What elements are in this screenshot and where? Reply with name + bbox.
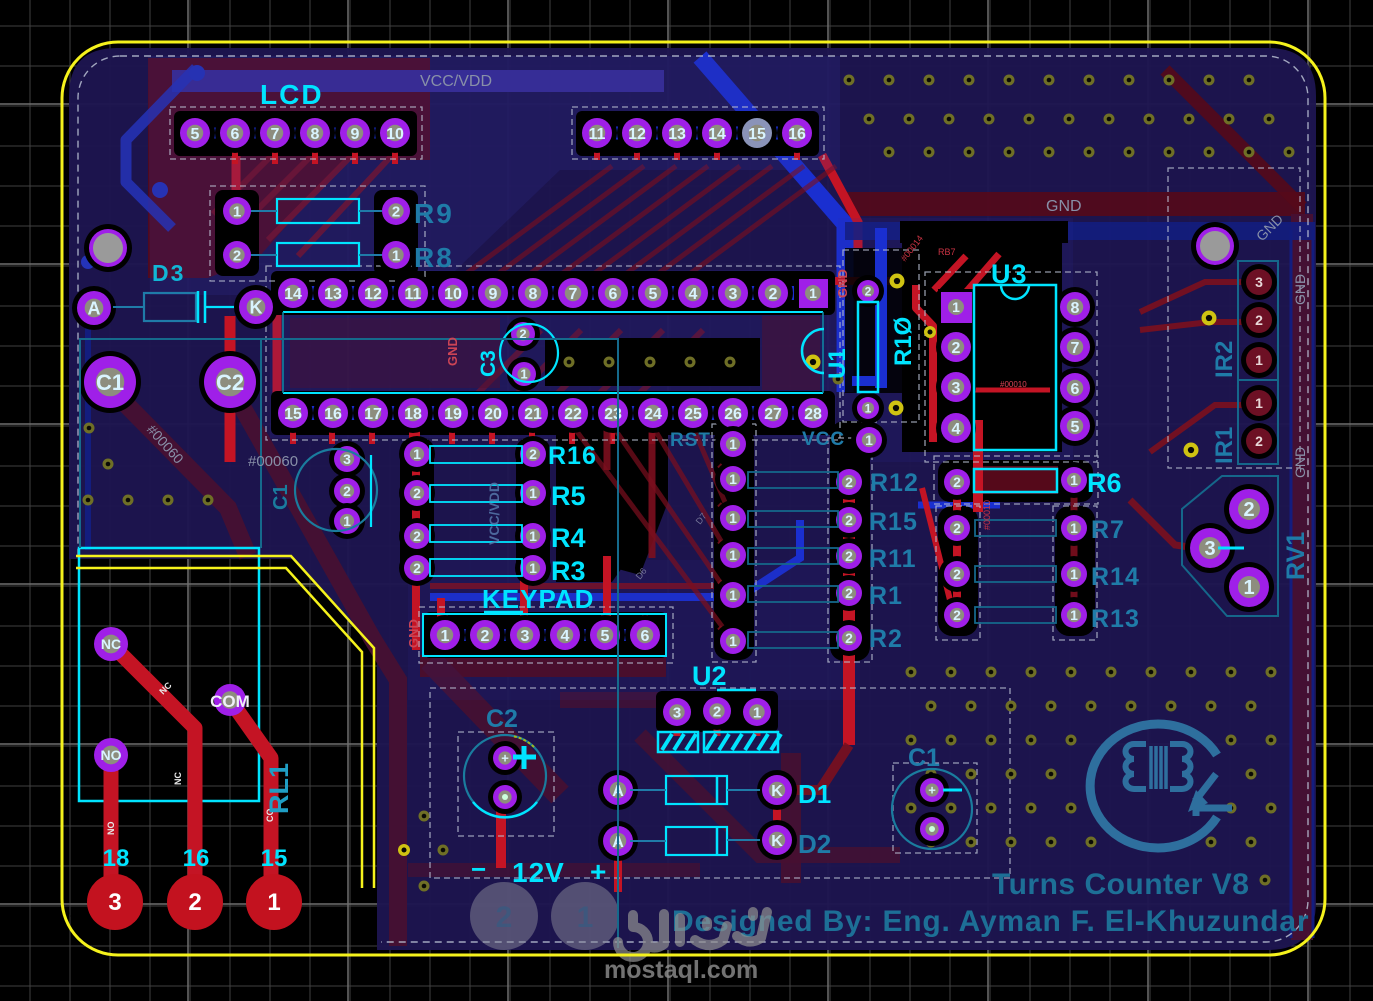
svg-text:7: 7 <box>1071 340 1080 357</box>
wire mid horizontal red+blue <box>430 583 737 589</box>
svg-text:IR2: IR2 <box>1211 341 1238 378</box>
svg-text:2: 2 <box>413 528 421 544</box>
svg-text:U3: U3 <box>991 259 1028 289</box>
clearance socket middle <box>545 338 760 386</box>
svg-text:2: 2 <box>952 340 961 357</box>
svg-text:GND: GND <box>1046 198 1082 215</box>
capacitor C2 pad <box>199 351 261 413</box>
svg-text:16: 16 <box>183 845 210 872</box>
svg-text:3: 3 <box>729 286 738 303</box>
svg-text:15: 15 <box>284 406 302 423</box>
svg-text:R2: R2 <box>869 625 903 653</box>
relay terminal 2 <box>167 874 223 930</box>
svg-text:27: 27 <box>764 406 782 423</box>
wire A2 red trace down <box>614 848 622 892</box>
wire socket row1 red stubs <box>290 274 296 284</box>
svg-text:12V: 12V <box>512 857 565 888</box>
relay trace COM <box>230 700 271 898</box>
svg-text:2: 2 <box>481 628 490 645</box>
svg-text:2: 2 <box>953 474 961 490</box>
potentiometer RV1 pads <box>1224 484 1274 534</box>
resistor network left pads <box>399 436 435 472</box>
blue plane tint socket <box>270 270 836 438</box>
svg-text:RV1: RV1 <box>1282 532 1310 580</box>
diode pads K <box>757 770 797 810</box>
wire U3 left red path <box>916 285 933 442</box>
IC socket row1 pins 14-1 <box>273 273 313 313</box>
svg-text:6: 6 <box>641 628 650 645</box>
wire diagonal bundle lcd to socket <box>452 166 612 284</box>
svg-text:3: 3 <box>673 704 681 721</box>
U3 body <box>1001 285 1029 299</box>
dim blue band above U3 <box>845 222 1315 240</box>
IC socket row2 pins 15-28 <box>273 393 313 433</box>
svg-text:R11: R11 <box>869 545 916 573</box>
svg-text:1: 1 <box>520 367 527 382</box>
U3 pads right <box>1055 287 1095 327</box>
svg-text:1: 1 <box>392 247 400 264</box>
wire A-K red bends <box>773 798 781 833</box>
svg-text:2: 2 <box>713 703 721 720</box>
svg-text:GND: GND <box>1292 274 1308 305</box>
svg-text:RL1: RL1 <box>264 763 294 814</box>
svg-text:GND: GND <box>406 619 421 648</box>
svg-text:22: 22 <box>564 406 582 423</box>
C2 plus mark <box>513 755 536 760</box>
svg-text:A: A <box>88 298 101 318</box>
clearance socket row2 <box>271 391 835 435</box>
dashed courtyard lcd left <box>170 107 422 159</box>
dashed courtyard lcd right <box>572 107 824 159</box>
wire U3 red feeds <box>912 239 920 287</box>
blue blobs top-left <box>189 65 205 81</box>
clearance R4 diamond <box>585 470 668 575</box>
blue plane tint top-left <box>148 56 840 295</box>
svg-text:1: 1 <box>267 889 280 916</box>
relay RL1 outline <box>79 548 259 801</box>
keypad silk outline <box>423 614 666 656</box>
svg-text:U2: U2 <box>692 661 727 691</box>
wire red stripe along blue bus <box>822 155 858 248</box>
svg-text:NO: NO <box>106 822 116 836</box>
relay pad COM <box>214 684 246 716</box>
wire bottom-center maroon diagonals <box>430 660 560 795</box>
svg-text:1: 1 <box>413 446 421 462</box>
board cutout edge <box>76 556 374 888</box>
svg-text:2: 2 <box>233 247 241 264</box>
svg-text:13: 13 <box>324 286 342 303</box>
svg-text:6: 6 <box>231 126 240 143</box>
dashed courtyard socket <box>266 266 840 440</box>
dashed R column outlines <box>712 424 756 662</box>
svg-text:1: 1 <box>729 633 737 649</box>
svg-text:R6: R6 <box>1087 468 1122 498</box>
svg-text:20: 20 <box>484 406 502 423</box>
pad spare 1 <box>551 882 619 950</box>
wire C2pad maroon diagonal <box>236 396 398 946</box>
svg-text:D3: D3 <box>152 260 185 286</box>
svg-text:2: 2 <box>413 485 421 501</box>
svg-text:12: 12 <box>364 286 382 303</box>
diode pads A <box>598 770 638 810</box>
wire socket row2 blue bus <box>276 406 830 420</box>
via grid bottom-right <box>906 667 917 678</box>
svg-text:3: 3 <box>1204 538 1215 560</box>
svg-text:14: 14 <box>708 126 726 143</box>
clearance lcd header right <box>576 111 819 156</box>
svg-text:D1: D1 <box>798 779 831 809</box>
dashed courtyard R10 <box>843 250 919 422</box>
clearance keypad <box>424 612 667 658</box>
svg-text:R16: R16 <box>548 442 597 470</box>
LCD header pins 11-16 <box>577 113 617 153</box>
svg-text:R1Ø: R1Ø <box>890 317 917 366</box>
dashed courtyard U3 <box>925 272 1097 462</box>
watermark mostaql arabic <box>618 912 767 957</box>
svg-text:−: − <box>471 854 486 884</box>
svg-text:GND: GND <box>835 269 850 298</box>
svg-text:C1: C1 <box>908 744 940 772</box>
capacitor C3 pads <box>506 317 540 351</box>
resistor R3 body <box>430 559 522 576</box>
connector IR1 outline <box>1238 380 1278 464</box>
via yellow cluster U1 <box>806 355 821 370</box>
diode D2 body <box>666 827 727 855</box>
svg-text:GND: GND <box>445 337 460 366</box>
svg-text:1: 1 <box>441 628 450 645</box>
wire keypad maroon band <box>420 655 666 677</box>
svg-text:2: 2 <box>845 585 853 601</box>
capacitor C1 outline <box>892 769 972 849</box>
svg-text:1: 1 <box>1070 520 1078 536</box>
svg-text:3: 3 <box>108 889 121 916</box>
svg-text:R8: R8 <box>414 242 454 273</box>
svg-text:25: 25 <box>684 406 702 423</box>
wire socket fan-out traces <box>461 330 541 410</box>
relay pad NC <box>94 627 128 661</box>
svg-text:2: 2 <box>845 548 853 564</box>
svg-text:K: K <box>771 833 783 850</box>
dashed courtyard IR <box>1168 168 1300 468</box>
svg-text:1: 1 <box>729 510 737 526</box>
wire U2 red stubs <box>674 720 681 736</box>
resistor R9 body <box>277 199 359 223</box>
clearance mid R column <box>830 421 870 661</box>
dashed courtyard keypad <box>419 607 673 663</box>
U2 hatched pad small <box>658 732 698 752</box>
svg-text:8: 8 <box>1071 300 1080 317</box>
resistor R9 pads <box>218 192 256 230</box>
clearance U3 region <box>902 236 1062 452</box>
dashed courtyard R9R8 <box>210 186 425 281</box>
svg-text:mostaql.com: mostaql.com <box>604 956 758 984</box>
svg-text:+: + <box>501 751 509 766</box>
relay terminal 3 <box>87 874 143 930</box>
wire socket row2 red stubs <box>290 425 296 444</box>
socket interior pours <box>290 318 500 388</box>
svg-text:NO: NO <box>101 747 122 763</box>
clearance R9 R8 pads <box>215 190 259 276</box>
wire C1 diagonal pour <box>112 390 248 556</box>
svg-text:1: 1 <box>729 436 737 452</box>
resistor R4 body <box>430 525 522 542</box>
transistor Q1 pads <box>329 441 365 477</box>
svg-text:VCC: VCC <box>802 429 845 450</box>
top-left copper pour <box>148 58 430 278</box>
svg-text:15: 15 <box>261 845 288 872</box>
svg-text:1: 1 <box>577 901 594 934</box>
svg-text:2: 2 <box>413 560 421 576</box>
clearance U2 pads <box>656 691 778 732</box>
svg-text:C1: C1 <box>270 484 292 510</box>
svg-text:2: 2 <box>953 520 961 536</box>
svg-text:1: 1 <box>729 547 737 563</box>
diode D3 pads <box>72 286 116 330</box>
svg-text:1: 1 <box>865 432 873 448</box>
svg-text:C1: C1 <box>96 370 124 395</box>
svg-text:10: 10 <box>386 126 404 143</box>
right edge pour band <box>1291 214 1313 940</box>
resistor R10 body <box>858 302 878 392</box>
LCD header pins 5-10 <box>175 113 215 153</box>
wire C2 red trace down <box>496 800 506 868</box>
svg-text:KEYPAD: KEYPAD <box>482 584 594 614</box>
svg-text:1: 1 <box>1243 577 1254 599</box>
wire lcd diagonal traces <box>213 152 275 214</box>
svg-text:RST: RST <box>670 430 711 451</box>
clearance lcd header left <box>174 111 417 156</box>
dashed courtyard C2 <box>458 732 554 836</box>
svg-text:16: 16 <box>324 406 342 423</box>
svg-text:R3: R3 <box>551 556 586 586</box>
big teal routing box <box>80 339 618 948</box>
U2 pads <box>658 693 696 731</box>
wire K-C2 red trace <box>225 316 236 462</box>
svg-text:2: 2 <box>343 483 351 499</box>
svg-text:R9: R9 <box>414 198 454 229</box>
connector IR2 outline <box>1238 261 1278 380</box>
svg-text:1: 1 <box>809 285 817 301</box>
relay trace NC <box>111 644 195 898</box>
svg-text:RB7: RB7 <box>938 247 956 257</box>
svg-text:14: 14 <box>284 286 302 303</box>
svg-text:1: 1 <box>529 528 537 544</box>
resistor R8 pads <box>218 236 256 274</box>
svg-text:VCC/VDD: VCC/VDD <box>486 482 502 545</box>
svg-text:1: 1 <box>1070 472 1078 488</box>
wire row2 fanout diagonals <box>572 425 733 641</box>
svg-text:2: 2 <box>845 512 853 528</box>
clearance R16 left column <box>400 438 434 584</box>
diode D3 body <box>144 293 196 321</box>
svg-text:NC: NC <box>173 772 183 785</box>
clearance right R columns <box>938 506 978 636</box>
svg-text:5: 5 <box>1071 419 1080 436</box>
diode D1 body <box>666 776 727 804</box>
svg-text:R1: R1 <box>869 582 903 610</box>
svg-text:2: 2 <box>845 630 853 646</box>
svg-text:R13: R13 <box>1091 605 1140 633</box>
U1 outline arc <box>802 329 824 373</box>
connector IR2 pads <box>1241 264 1277 300</box>
wire blue vertical near U1 <box>875 228 887 388</box>
svg-text:11: 11 <box>589 126 606 143</box>
wire R-array red verticals <box>953 468 961 625</box>
wire lcd-right blue bus <box>580 127 815 140</box>
wire keypad red traces <box>412 420 420 650</box>
svg-text:1: 1 <box>952 299 960 315</box>
svg-text:2: 2 <box>953 566 961 582</box>
svg-text:2: 2 <box>188 889 201 916</box>
wire socket row1 blue bus <box>276 286 830 300</box>
C1 plus mark <box>943 789 962 792</box>
svg-text:2: 2 <box>1255 433 1263 449</box>
svg-text:COM: COM <box>210 692 250 711</box>
svg-text:3: 3 <box>952 380 961 397</box>
svg-text:R4: R4 <box>551 523 586 553</box>
svg-text:LCD: LCD <box>260 79 324 110</box>
svg-text:2: 2 <box>865 284 872 298</box>
resistor R8 body <box>277 243 359 266</box>
potentiometer RV1 outline <box>1182 476 1278 616</box>
svg-text:7: 7 <box>271 126 280 143</box>
svg-text:D2: D2 <box>798 829 831 859</box>
svg-text:4: 4 <box>952 421 961 438</box>
top GND band <box>845 192 1305 216</box>
top-right corner diagonal pour <box>1165 70 1302 207</box>
svg-text:+: + <box>590 856 606 887</box>
VCC/VDD bus band <box>172 70 664 92</box>
svg-text:17: 17 <box>364 406 382 423</box>
svg-text:1: 1 <box>729 471 737 487</box>
svg-text:1: 1 <box>1255 352 1263 368</box>
svg-text:23: 23 <box>604 406 622 423</box>
capacitor C1 pad <box>79 351 141 413</box>
svg-text:1: 1 <box>343 513 351 529</box>
svg-text:R5: R5 <box>551 481 586 511</box>
wire blue jog below R12 <box>918 502 1000 509</box>
svg-text:2: 2 <box>529 446 537 462</box>
capacitor C2 outline <box>464 735 546 817</box>
blue plane tint U3 zone <box>838 218 1073 462</box>
clearance left R column <box>714 426 754 660</box>
svg-text:28: 28 <box>804 406 822 423</box>
wire lcd-left blue bus <box>180 128 412 139</box>
svg-text:18: 18 <box>404 406 422 423</box>
wire RV1 red diagonal <box>1130 500 1196 548</box>
relay pad NO <box>94 738 128 772</box>
svg-text:6: 6 <box>609 286 618 303</box>
svg-text:#00010: #00010 <box>1000 380 1027 389</box>
svg-text:3: 3 <box>521 628 530 645</box>
wire left blue trace <box>85 318 91 550</box>
blue plane tint center bottom <box>408 560 860 700</box>
capacitor C2 polarized pads <box>488 741 522 775</box>
svg-text:21: 21 <box>524 406 542 423</box>
R12-R2 left column pads <box>715 461 751 497</box>
svg-text:10: 10 <box>444 286 462 303</box>
wire lcd red stubs <box>232 145 238 164</box>
wire IR red diagonals <box>1140 282 1243 312</box>
resistor R16 body <box>430 446 522 463</box>
via yellow right side <box>1202 311 1217 326</box>
svg-text:2: 2 <box>496 901 513 934</box>
pad spare 2 <box>470 882 538 950</box>
right edge blue lines <box>1290 230 1293 938</box>
mounting hole left <box>84 224 132 272</box>
wire red trace pad6 to R9 <box>232 140 241 208</box>
svg-text:VCC/VDD: VCC/VDD <box>420 73 492 90</box>
right resistor bodies dim <box>975 520 1056 536</box>
svg-text:2: 2 <box>845 474 853 490</box>
keypad header pads <box>425 615 465 655</box>
svg-text:NC: NC <box>101 636 121 652</box>
svg-text:11: 11 <box>405 286 422 303</box>
svg-text:7: 7 <box>569 286 578 303</box>
svg-text:R15: R15 <box>869 508 918 536</box>
svg-text:4: 4 <box>689 286 698 303</box>
dashed courtyard C1cap <box>893 763 977 853</box>
svg-text:18: 18 <box>103 845 130 872</box>
wire blue wrap top-left <box>126 68 196 228</box>
capacitor C3 outline <box>500 324 558 382</box>
left resistor bodies dim <box>748 472 838 488</box>
svg-text:R12: R12 <box>870 469 919 497</box>
svg-text:1: 1 <box>753 704 761 721</box>
svg-text:5: 5 <box>191 126 200 143</box>
svg-text:9: 9 <box>489 286 498 303</box>
svg-text:K: K <box>771 783 783 800</box>
svg-text:R7: R7 <box>1091 516 1125 544</box>
clearance R16-R3 area <box>556 420 668 582</box>
svg-text:26: 26 <box>724 406 742 423</box>
svg-text:2: 2 <box>392 203 400 220</box>
R6-R13 left column pads <box>939 464 975 500</box>
wire left R column stubs <box>719 465 733 479</box>
U1 pads <box>852 392 884 424</box>
pad RST <box>715 426 751 462</box>
svg-text:12: 12 <box>628 126 646 143</box>
resistor R6 body <box>974 469 1057 492</box>
capacitor C1 polarized pads <box>915 773 949 807</box>
R6-R13 right column pads <box>1056 462 1092 498</box>
pad U1 pin2 <box>852 275 884 307</box>
clearance R6 row <box>938 460 1093 502</box>
svg-text:U1: U1 <box>824 348 851 379</box>
svg-text:1: 1 <box>529 560 537 576</box>
via cluster left <box>84 423 95 434</box>
svg-text:K: K <box>250 297 263 317</box>
svg-text:1: 1 <box>1070 566 1078 582</box>
svg-text:6: 6 <box>1071 381 1080 398</box>
svg-text:1: 1 <box>233 203 241 220</box>
svg-text:C3: C3 <box>477 350 500 377</box>
svg-text:IR1: IR1 <box>1211 427 1238 464</box>
svg-text:#00010: #00010 <box>982 500 992 530</box>
clearance socket row1 <box>271 271 835 315</box>
wire keypad red stubs <box>442 615 448 626</box>
wire GND blue diagonal bus <box>700 57 845 392</box>
via row socket middle <box>564 357 575 368</box>
R12-R2 right column pads <box>851 422 887 458</box>
dashed courtyard bottom cluster <box>430 688 1010 878</box>
svg-text:19: 19 <box>444 406 462 423</box>
resistor R5 body <box>430 485 522 502</box>
svg-text:1: 1 <box>1255 395 1263 411</box>
svg-text:24: 24 <box>644 406 662 423</box>
svg-text:15: 15 <box>748 126 766 143</box>
connector IR1 pads <box>1241 385 1277 421</box>
